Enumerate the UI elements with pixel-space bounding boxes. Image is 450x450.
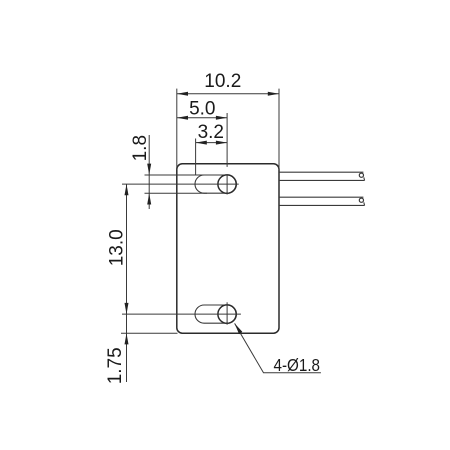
bottom mounting slot: [195, 305, 236, 323]
svg-text:10.2: 10.2: [204, 71, 241, 92]
dimension 3.2 left extension line: [195, 139, 197, 176]
dimension 13.0 top arrow: [125, 184, 129, 195]
top mounting slot: [195, 175, 236, 193]
lead wire 2: [279, 197, 365, 205]
svg-text:1.75: 1.75: [105, 347, 126, 384]
svg-text:13.0: 13.0: [106, 229, 127, 266]
dimension 1.8 line: [148, 135, 150, 209]
dimension 1.75 line: [126, 314, 128, 382]
leader arrow: [235, 323, 243, 334]
dimension 3.2 line: [196, 142, 228, 144]
svg-text:1.8: 1.8: [130, 135, 151, 161]
top hole vertical center line: [226, 174, 228, 194]
dimension 10.2 line: [177, 93, 279, 95]
top slot horizontal center line: [122, 183, 239, 185]
dimension 1.8 upper arrow: [147, 164, 151, 175]
dimension 10.2 right arrow: [268, 92, 279, 96]
dimension 13.0 bottom arrow: [125, 303, 129, 314]
extension line from slot top edge: [145, 174, 208, 176]
extension line from slot bottom edge: [145, 192, 208, 194]
bottom hole vertical center line: [226, 302, 228, 324]
dimension 5.0 left arrow: [177, 116, 188, 120]
dimension 3.2 right arrow: [216, 141, 227, 145]
dimension 5.0 line: [177, 117, 227, 119]
svg-text:3.2: 3.2: [198, 122, 224, 143]
dimension 5.0/3.2 right extension line: [226, 113, 228, 167]
dimension 10.2 extension line left: [176, 89, 178, 170]
dimension 10.2 left arrow: [177, 92, 188, 96]
svg-text:4-Ø1.8: 4-Ø1.8: [274, 355, 321, 375]
dimension 1.8 lower arrow: [147, 193, 151, 204]
dimension 10.2 extension line right: [278, 89, 280, 170]
bottom hole circle: [218, 305, 236, 323]
lead wire 1: [279, 172, 365, 180]
bottom slot horizontal center line: [122, 313, 241, 315]
dimension 13.0 line: [126, 184, 128, 314]
svg-text:5.0: 5.0: [189, 99, 215, 120]
dimension 5.0 right arrow: [216, 116, 227, 120]
body outline: [177, 164, 279, 333]
top hole circle: [218, 175, 236, 193]
dimension 3.2 left arrow: [196, 141, 207, 145]
leader line for hole callout: [235, 323, 321, 372]
dimension 1.75 arrow: [125, 333, 129, 344]
dimension 1.75 extension line (body bottom edge): [121, 332, 178, 334]
